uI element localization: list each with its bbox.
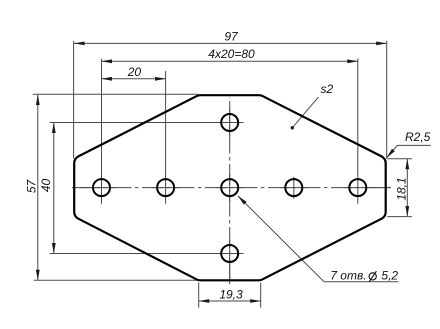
- node: arrow 18,1 bottom: [405, 206, 409, 217]
- wire: extension line 97 right: [386, 41, 388, 159]
- node: arrow 80 left: [102, 59, 113, 63]
- wire: leader line 7 holes callout: [238, 196, 399, 282]
- wire: center mark vertical at hole y=253.5: [229, 240, 231, 285]
- hole 4 (center) (Ø5,2): [221, 179, 238, 196]
- wire: center mark vertical at hole y=187.6: [229, 174, 231, 202]
- node: arrow 40 bottom: [52, 243, 56, 254]
- node: arrow 97 left: [74, 42, 85, 46]
- wire: extension line 57 bottom: [34, 279, 199, 281]
- node: s2 leader dot: [291, 126, 294, 129]
- svg-text:19,3: 19,3: [219, 287, 243, 301]
- node: arrow 20 right: [155, 77, 166, 81]
- svg-text:57: 57: [24, 179, 38, 194]
- wire: center mark horizontal at hole x=293.8: [280, 187, 308, 189]
- hole 2 (Ø5,2): [157, 179, 174, 196]
- wire: extension line 18,1 bottom: [387, 216, 412, 218]
- wire: extension line 18,1 top: [387, 158, 412, 160]
- wire: dimension line 97: [74, 42, 387, 44]
- wire: dimension line 57: [37, 95, 39, 281]
- wire: extension line through hole 5 (x=357.8): [357, 59, 359, 204]
- wire: dimension line 20: [102, 78, 166, 80]
- wire: extension line 19,3 left: [198, 283, 200, 308]
- hole 7 (Ø5,2): [349, 179, 366, 196]
- wire: center mark horizontal at hole x=357.8: [344, 187, 391, 189]
- hole 5 (Ø5,2): [285, 179, 302, 196]
- wire: center mark vertical at hole y=122.5: [229, 109, 231, 137]
- svg-text:97: 97: [224, 30, 239, 44]
- wire: extension line through hole 2 (x=165.6): [165, 71, 167, 204]
- node: arrow 20 left: [102, 77, 113, 81]
- svg-text:18,1: 18,1: [394, 177, 408, 200]
- svg-text:R2,5: R2,5: [405, 130, 431, 144]
- svg-text:s2: s2: [321, 82, 334, 96]
- wire: extension line 40 top through upper hole: [50, 122, 244, 124]
- svg-text:4x20=80: 4x20=80: [208, 47, 255, 61]
- svg-text:7 отв.: 7 отв.: [330, 269, 366, 283]
- hole 1 (Ø5,2): [93, 179, 110, 196]
- plate outline (7-hole plate body): [74, 95, 386, 280]
- node: arrow hole callout: [238, 196, 247, 205]
- wire: extension line 57 top: [33, 93, 199, 95]
- wire: extension line 97 left: [73, 41, 75, 159]
- node: arrow 19,3 left: [199, 299, 210, 303]
- wire: extension line 40 bottom through lower hole: [50, 253, 244, 255]
- hole 6 bottom (Ø5,2): [221, 245, 238, 262]
- svg-text:20: 20: [127, 65, 142, 79]
- node: vertical centerline axis: [229, 97, 231, 284]
- hole 3 top (Ø5,2): [221, 114, 238, 131]
- wire: center mark vertical hole 4: [293, 177, 295, 199]
- node: arrow 57 bottom: [36, 270, 40, 281]
- wire: center mark horizontal at hole x=165.6: [152, 187, 180, 189]
- wire: dimension line 4x20=80: [102, 60, 358, 62]
- wire: dimension line 18,1: [406, 159, 408, 217]
- node: horizontal centerline axis: [72, 187, 391, 189]
- wire: leader line s2: [292, 97, 318, 128]
- wire: leader line R2,5: [387, 145, 431, 158]
- wire: dimension line 40: [53, 123, 55, 254]
- node: diameter symbol: [369, 271, 376, 281]
- node: arrow 18,1 top: [405, 159, 409, 170]
- node: arrow 40 top: [52, 123, 56, 134]
- svg-text:5,2: 5,2: [381, 269, 398, 283]
- node: arrow R2,5 leader: [387, 149, 395, 158]
- wire: extension line 19,3 right: [260, 283, 262, 308]
- node: arrow 19,3 right: [250, 299, 261, 303]
- node: arrow 97 right: [376, 42, 387, 46]
- wire: center mark horizontal at hole x=101.5: [74, 187, 116, 189]
- wire: center mark horizontal at hole x=229.7: [216, 187, 244, 189]
- wire: extension line through hole 1 (x=101.5): [101, 59, 103, 204]
- node: arrow 80 right: [347, 59, 358, 63]
- node: arrow 57 top: [36, 95, 40, 106]
- svg-text:40: 40: [39, 179, 53, 193]
- wire: dimension line 19,3: [199, 300, 261, 302]
